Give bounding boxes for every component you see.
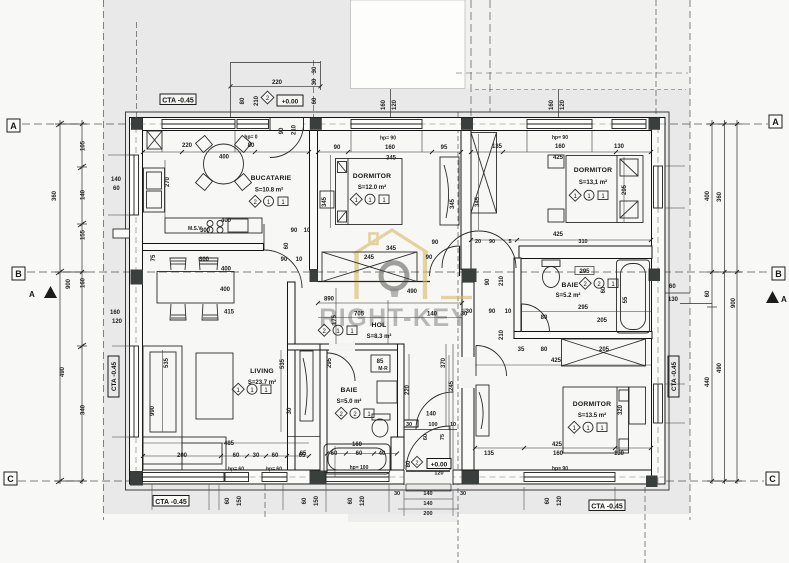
svg-text:S=13,1 m²: S=13,1 m² <box>579 179 607 186</box>
dorm2 bottom wall <box>519 246 652 259</box>
svg-text:LIVING: LIVING <box>250 368 274 375</box>
dashed property line left <box>103 0 105 520</box>
svg-text:60: 60 <box>284 242 290 249</box>
svg-text:140: 140 <box>111 177 122 183</box>
bottom exterior wall band <box>130 470 666 484</box>
svg-text:M-R: M-R <box>378 366 388 372</box>
svg-text:320: 320 <box>618 404 624 415</box>
dorm3 side cabinet <box>476 385 489 436</box>
kitchen round table <box>204 144 244 184</box>
svg-text:60: 60 <box>423 434 429 440</box>
svg-text:A: A <box>772 117 779 127</box>
interior wall kitchen/dorm1 vertical <box>310 131 318 271</box>
column bottom-left <box>130 471 143 486</box>
hol top thin wall (wardrobe back) <box>318 281 430 283</box>
dorm1 nightstand <box>320 191 334 208</box>
window dorm1 top <box>351 120 422 129</box>
svg-text:175: 175 <box>332 314 338 325</box>
living sofa L <box>143 346 226 470</box>
svg-text:400: 400 <box>221 267 232 273</box>
svg-text:C: C <box>7 474 14 484</box>
dorm2 nightstand bottom <box>548 209 564 222</box>
kitchen bottom wall <box>143 244 264 251</box>
corridor dim lines <box>336 288 453 470</box>
grid marker B left <box>12 267 25 280</box>
svg-text:440: 440 <box>705 376 711 387</box>
window left living <box>130 346 139 437</box>
level mark +0.00 top <box>277 95 303 106</box>
svg-text:RIGHT-KEY: RIGHT-KEY <box>319 304 469 332</box>
svg-text:990: 990 <box>150 405 156 416</box>
baie1 toilet <box>372 414 390 437</box>
column top-right <box>649 118 661 130</box>
watermark house roof <box>354 230 429 254</box>
kitchen door arc to hol <box>264 250 302 288</box>
bottom extension lines from windows <box>152 484 615 516</box>
svg-text:hp= 60: hp= 60 <box>228 467 244 473</box>
svg-text:60: 60 <box>233 453 240 459</box>
svg-text:+0.00: +0.00 <box>282 99 299 106</box>
svg-text:30: 30 <box>460 491 466 497</box>
svg-text:2: 2 <box>415 461 418 467</box>
dim line: kitchen top 220/80/400 <box>143 151 309 153</box>
svg-text:490: 490 <box>60 366 66 377</box>
svg-text:160: 160 <box>555 144 566 150</box>
dorm3 door arc <box>476 346 507 377</box>
grid line A <box>22 123 768 125</box>
svg-text:490: 490 <box>717 362 723 373</box>
svg-text:DORMITOR: DORMITOR <box>573 401 611 408</box>
svg-text:345: 345 <box>386 156 397 162</box>
svg-text:A: A <box>10 121 17 131</box>
left ticks row x82 <box>56 121 86 484</box>
dorm3 bed <box>476 385 646 453</box>
svg-text:160: 160 <box>381 99 387 110</box>
window small top-right <box>612 120 646 129</box>
dashed line top x656 <box>655 0 657 118</box>
svg-text:75: 75 <box>440 434 446 440</box>
dining chair bottom-left <box>170 304 186 320</box>
svg-text:150: 150 <box>314 495 320 506</box>
top dimension cluster <box>231 61 322 118</box>
entrance door leaf <box>406 470 450 472</box>
svg-text:310: 310 <box>578 239 587 245</box>
svg-text:120: 120 <box>360 495 366 506</box>
dorm3 pillow bottom <box>619 439 629 450</box>
dorm1 wardrobe right <box>440 157 459 225</box>
svg-text:hp= 100: hp= 100 <box>350 465 369 471</box>
entrance door swing arc <box>406 426 450 470</box>
svg-text:205: 205 <box>599 347 610 353</box>
svg-text:140: 140 <box>81 189 87 200</box>
svg-text:130: 130 <box>614 451 625 457</box>
svg-text:900: 900 <box>66 278 72 289</box>
svg-text:30: 30 <box>312 78 318 85</box>
kitchen stove burners <box>271 371 273 373</box>
svg-text:400: 400 <box>705 190 711 201</box>
svg-text:100: 100 <box>428 422 437 428</box>
dorm3 left wall <box>462 282 474 470</box>
svg-text:400: 400 <box>220 287 231 293</box>
living coffee table <box>196 353 233 419</box>
window bottom living 2 <box>225 473 249 482</box>
svg-text:B: B <box>15 269 22 279</box>
svg-text:CTA -0.45: CTA -0.45 <box>155 499 187 506</box>
svg-text:30: 30 <box>312 66 318 73</box>
dashed boundary line above plan <box>475 89 686 91</box>
svg-text:60: 60 <box>113 186 120 192</box>
watermark house left wall <box>354 252 358 300</box>
svg-text:60: 60 <box>225 497 231 504</box>
svg-text:60: 60 <box>348 497 354 504</box>
svg-text:DORMITOR: DORMITOR <box>574 167 612 174</box>
dashed property line right <box>689 0 691 520</box>
baie2 symbols <box>579 277 618 289</box>
dorm1 door arc <box>430 246 460 276</box>
living radiator/plant right <box>300 351 313 421</box>
dim tick marks <box>58 84 739 483</box>
kitchen counter dim line <box>164 160 166 218</box>
wall dashed axis bottom <box>130 476 666 478</box>
svg-text:HOL: HOL <box>372 322 387 329</box>
svg-text:80: 80 <box>541 315 548 321</box>
column bottom vest/dorm3 <box>462 471 480 485</box>
svg-text:245: 245 <box>364 255 375 261</box>
svg-text:425: 425 <box>551 358 562 364</box>
baie1 top wall <box>320 344 404 350</box>
svg-text:140: 140 <box>423 491 432 497</box>
window right dorm2 <box>654 166 663 208</box>
svg-text:400: 400 <box>221 218 232 224</box>
svg-text:A: A <box>781 295 787 304</box>
dashed line top x136 <box>136 22 138 118</box>
svg-text:hp= 0: hp= 0 <box>244 135 257 141</box>
svg-text:30: 30 <box>406 422 412 428</box>
dining chair bottom-right <box>202 304 218 320</box>
watermark house right wall <box>423 252 427 300</box>
svg-text:140: 140 <box>426 412 437 418</box>
svg-text:200: 200 <box>177 453 188 459</box>
svg-text:360: 360 <box>52 190 58 201</box>
wall dashed axis top <box>130 123 666 125</box>
dashed section line vertical x458 <box>457 112 459 563</box>
bath2 door arc <box>522 304 550 332</box>
svg-text:245: 245 <box>449 380 455 391</box>
dormitor3 symbols <box>568 421 607 433</box>
window bottom living 1 <box>143 473 225 482</box>
kitchen terrace door window <box>237 120 269 129</box>
svg-text:120: 120 <box>560 99 566 110</box>
svg-text:CTA -0.45: CTA -0.45 <box>162 98 194 105</box>
svg-text:75: 75 <box>151 254 157 261</box>
svg-text:210: 210 <box>499 275 505 286</box>
svg-text:A: A <box>29 290 35 299</box>
svg-text:415: 415 <box>224 310 235 316</box>
svg-text:85: 85 <box>377 359 384 365</box>
window bottom baie1 <box>326 473 389 482</box>
entrance threshold <box>406 484 451 491</box>
svg-text:300: 300 <box>200 228 211 234</box>
living/hol wall vertical <box>288 282 296 346</box>
gray tab below entrance <box>348 514 458 522</box>
dorm1 bed <box>320 157 459 225</box>
svg-text:400: 400 <box>219 155 230 161</box>
grid line C <box>18 480 764 482</box>
svg-text:345: 345 <box>322 196 328 207</box>
CTA box bottom-left <box>153 496 189 507</box>
svg-text:55: 55 <box>623 296 629 303</box>
svg-text:60: 60 <box>601 286 607 293</box>
column left B <box>131 270 144 285</box>
svg-text:135: 135 <box>484 451 495 457</box>
grid marker A right <box>769 115 782 128</box>
kitchen chair SW <box>196 174 213 191</box>
svg-text:20: 20 <box>475 239 481 245</box>
dorm3 nightstand <box>629 387 646 424</box>
svg-text:900: 900 <box>731 297 737 308</box>
CTA box top-left <box>160 94 196 105</box>
svg-text:90: 90 <box>279 127 285 134</box>
svg-text:S=10.8 m²: S=10.8 m² <box>255 187 283 194</box>
svg-text:10: 10 <box>296 257 303 263</box>
extension line window dorm2 <box>558 89 560 118</box>
svg-text:60: 60 <box>669 284 676 290</box>
svg-text:S=5.0 m²: S=5.0 m² <box>337 398 362 405</box>
pale zone top-right of notch <box>465 0 690 89</box>
svg-text:210: 210 <box>292 124 298 135</box>
dormitor1 symbols <box>350 193 389 205</box>
left dimension lines <box>55 120 87 484</box>
grid marker B right <box>772 267 785 280</box>
dorm1 pillow bottom <box>338 211 347 222</box>
svg-text:220: 220 <box>405 384 411 395</box>
bath2 bottom wall <box>514 332 652 339</box>
svg-text:65: 65 <box>300 451 307 457</box>
dining table <box>157 258 234 320</box>
svg-text:10: 10 <box>304 228 311 234</box>
bath2 left wall <box>514 258 521 338</box>
dorm2 pillow bottom <box>620 201 638 218</box>
svg-text:160: 160 <box>352 442 363 448</box>
svg-text:60: 60 <box>705 290 711 297</box>
extension line window dorm1 <box>390 89 392 118</box>
svg-text:+0.00: +0.00 <box>431 462 448 469</box>
extension lines left wall windows <box>108 131 685 437</box>
svg-text:120: 120 <box>557 495 563 506</box>
svg-text:90: 90 <box>489 309 496 315</box>
svg-text:90: 90 <box>485 278 491 285</box>
svg-text:CTA -0.45: CTA -0.45 <box>591 504 623 511</box>
living/baie wall horizontal <box>288 344 321 350</box>
svg-text:40: 40 <box>379 451 386 457</box>
svg-text:80: 80 <box>240 97 246 104</box>
dining chair top-right <box>199 258 218 270</box>
baie1 right wall <box>398 344 405 470</box>
baie1 symbols <box>335 407 374 419</box>
svg-text:295: 295 <box>578 305 589 311</box>
svg-text:120: 120 <box>392 99 398 110</box>
dashed line bottom x645 <box>644 487 646 563</box>
svg-text:295: 295 <box>579 269 590 275</box>
column bottom living/baie <box>310 471 327 485</box>
window dorm2 top <box>527 120 592 129</box>
kitchen chair SE <box>235 174 252 191</box>
svg-text:S=12.0 m²: S=12.0 m² <box>358 184 386 191</box>
svg-text:S=5.2 m²: S=5.2 m² <box>556 292 581 299</box>
svg-text:150: 150 <box>237 495 243 506</box>
baie2 dims <box>575 267 594 275</box>
svg-text:60: 60 <box>331 451 338 457</box>
dashed line top x490 <box>489 0 491 112</box>
grid line B <box>27 271 770 273</box>
dim line: hol 890 <box>318 302 462 304</box>
room interiors lighter <box>130 118 666 485</box>
dorm2 door arc <box>442 231 516 268</box>
svg-text:120: 120 <box>112 319 123 325</box>
dorm2 nightstand top <box>548 155 564 168</box>
dorm3 bottom dim row <box>475 447 651 449</box>
dorm2 top dim line <box>471 151 651 153</box>
column B hol/dorm3 <box>462 269 477 283</box>
svg-text:130: 130 <box>614 144 625 150</box>
dashed section line vertical x471 <box>470 0 472 118</box>
svg-text:80: 80 <box>406 460 412 467</box>
svg-text:30: 30 <box>253 453 260 459</box>
svg-text:30: 30 <box>394 491 400 497</box>
dorm1 top dim line <box>318 151 461 153</box>
baie1 left wall <box>320 344 327 477</box>
vestibule interior door arc <box>416 392 454 430</box>
svg-text:345: 345 <box>475 196 481 207</box>
column top-left <box>131 118 143 130</box>
svg-text:60: 60 <box>302 497 308 504</box>
svg-text:60: 60 <box>545 497 551 504</box>
svg-text:5: 5 <box>508 239 511 245</box>
svg-text:295: 295 <box>622 184 628 195</box>
svg-text:160: 160 <box>385 145 396 151</box>
wall dashed axis left <box>135 117 137 484</box>
svg-text:BUCATARIE: BUCATARIE <box>251 175 292 182</box>
svg-text:CTA -0.45: CTA -0.45 <box>111 361 118 391</box>
svg-text:90: 90 <box>291 228 298 234</box>
dorm2 bed <box>548 155 643 223</box>
svg-text:90: 90 <box>281 257 288 263</box>
svg-text:80: 80 <box>248 143 255 149</box>
kitchen terrace door arc <box>270 127 303 158</box>
baie1 door arc <box>328 353 356 381</box>
kitchen bottom counter <box>165 218 262 233</box>
exterior finish outline <box>126 112 670 490</box>
top exterior wall band <box>130 118 666 131</box>
svg-text:425: 425 <box>553 155 564 161</box>
white notch top-center <box>351 0 466 89</box>
diamond 2 bottom <box>411 456 422 467</box>
svg-text:160: 160 <box>81 277 87 288</box>
svg-text:295: 295 <box>327 357 333 368</box>
baie1 bathtub <box>324 444 390 474</box>
vestibule door dim line <box>404 429 457 431</box>
svg-text:hp= 90: hp= 90 <box>552 135 568 141</box>
watermark keyhole tail <box>390 289 399 298</box>
svg-text:155: 155 <box>81 229 87 240</box>
entrance door opening bottom <box>404 469 453 485</box>
right dimension lines <box>663 120 742 484</box>
svg-text:hp= 90: hp= 90 <box>552 466 568 472</box>
svg-text:hp= 60: hp= 60 <box>266 467 282 473</box>
column B k/hol <box>310 269 319 282</box>
vestibule/hol wall stub <box>404 420 418 427</box>
dorm1 pillow top <box>338 162 347 173</box>
baie1 cabinet M-R <box>371 355 390 372</box>
column top k/d1 <box>310 118 322 130</box>
svg-text:200: 200 <box>423 511 432 517</box>
svg-text:135: 135 <box>492 144 503 150</box>
svg-text:80: 80 <box>541 347 548 353</box>
svg-text:270: 270 <box>165 176 171 187</box>
svg-text:35: 35 <box>518 347 525 353</box>
column bottom-right <box>646 476 658 488</box>
window kitchen top <box>162 120 235 129</box>
baie1 washing machine <box>377 381 397 403</box>
svg-text:BAIE: BAIE <box>561 282 578 289</box>
CTA box bottom-right <box>589 500 625 511</box>
bath2 toilet <box>542 260 560 288</box>
window bottom dorm3 <box>524 473 615 482</box>
grid marker A left <box>7 119 20 132</box>
svg-text:C: C <box>769 474 776 484</box>
svg-text:60: 60 <box>312 97 318 104</box>
scanner gray zone <box>103 0 690 514</box>
svg-text:10: 10 <box>505 309 512 315</box>
dorm3 pillow top <box>619 390 629 401</box>
svg-text:220: 220 <box>272 80 283 86</box>
svg-text:30: 30 <box>466 309 473 315</box>
svg-text:160: 160 <box>553 451 564 457</box>
svg-text:90: 90 <box>426 255 433 261</box>
svg-text:BAIE: BAIE <box>340 387 357 394</box>
watermark stray gold dash <box>441 296 472 299</box>
kitchen fridge <box>147 131 162 149</box>
wall dashed axis right <box>657 117 659 484</box>
svg-text:30: 30 <box>287 407 293 414</box>
grid marker C right <box>766 472 779 485</box>
svg-text:90: 90 <box>489 239 495 245</box>
svg-text:S=13.5 m²: S=13.5 m² <box>578 412 606 419</box>
svg-text:490: 490 <box>407 289 418 295</box>
svg-text:95: 95 <box>441 145 448 151</box>
svg-text:140: 140 <box>423 501 432 507</box>
baie1 door opening <box>329 343 355 351</box>
svg-text:90: 90 <box>432 240 439 246</box>
bucatarie symbols <box>249 195 288 207</box>
svg-text:S=8.3 m²: S=8.3 m² <box>367 333 392 340</box>
window right dorm3 <box>654 384 663 423</box>
baie1 wall jog <box>391 437 404 470</box>
svg-text:90: 90 <box>334 145 341 151</box>
svg-text:120: 120 <box>434 471 443 477</box>
svg-text:340: 340 <box>81 404 87 415</box>
secondary interior dim lines <box>143 134 651 477</box>
dashed eaves line above plan <box>456 72 688 74</box>
hol symbols <box>318 324 357 336</box>
kitchen left counter with sink <box>144 168 165 212</box>
svg-text:300: 300 <box>199 257 210 263</box>
svg-text:B: B <box>775 269 782 279</box>
CTA box left vertical <box>108 356 119 397</box>
svg-text:130: 130 <box>668 297 679 303</box>
window left kitchen <box>130 155 139 215</box>
watermark keyhole ring <box>381 263 407 289</box>
